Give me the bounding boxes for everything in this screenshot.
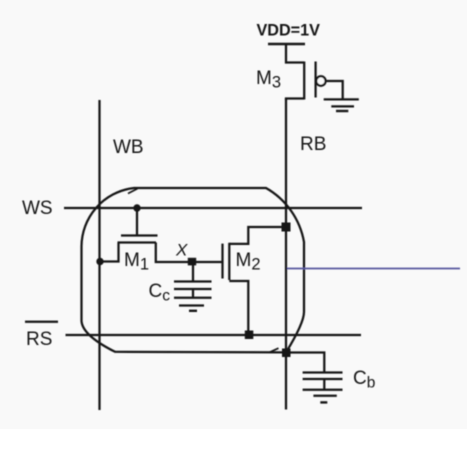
VDD rail <box>268 43 305 46</box>
svg-text:RB: RB <box>300 134 326 155</box>
wire X to Cc <box>192 262 194 282</box>
node RS-M2 source junction <box>245 331 254 340</box>
node RB-M2 drain junction <box>282 223 291 232</box>
transistor M3 gate bar <box>314 62 316 98</box>
svg-text:RS: RS <box>26 329 52 350</box>
wire M1 source to WB <box>100 243 119 262</box>
cell boundary stroke overlap tick <box>270 348 279 352</box>
svg-text:WS: WS <box>22 198 53 219</box>
capacitor Cc top plate <box>174 280 212 282</box>
node WS-M1 gate junction <box>133 204 140 211</box>
capacitor Cb bottom plate <box>303 378 343 380</box>
wire RB vertical <box>285 99 287 410</box>
wire M2 source to RS <box>229 281 248 335</box>
wire WB vertical <box>98 100 100 410</box>
transistor M3 PMOS bubble <box>316 76 325 85</box>
transistor M1 gate bar <box>121 234 158 236</box>
cell boundary stroke overlap tick (top-left) <box>128 189 138 194</box>
node X square <box>188 258 196 266</box>
wire M1 drain to node X and M2 gate <box>156 243 222 263</box>
wire read port (blue) <box>287 268 460 270</box>
wire WS to M1 gate <box>136 208 138 236</box>
transistor M3 channel <box>303 62 305 100</box>
node WB-M1 junction <box>96 258 103 265</box>
wire Cc to ground <box>192 289 194 298</box>
wire M3 drain to RB <box>286 99 304 101</box>
capacitor Cc bottom plate <box>174 288 212 290</box>
ground at M3 gate <box>324 98 359 100</box>
wire WS horizontal <box>64 207 362 209</box>
wire M3 source to VDD <box>286 44 304 63</box>
capacitor Cb top plate <box>303 371 343 373</box>
wire M3 gate to ground <box>325 81 342 99</box>
ground at Cc <box>174 297 212 299</box>
transistor M2 gate bar <box>221 244 223 279</box>
RS overline <box>25 321 58 323</box>
wire RS horizontal <box>66 334 362 336</box>
svg-text:WB: WB <box>113 137 144 158</box>
transistor M1 channel <box>118 241 157 243</box>
cell boundary rounded rectangle <box>81 188 304 352</box>
wire RB to Cb <box>286 353 324 373</box>
svg-text:VDD=1V: VDD=1V <box>257 22 321 40</box>
wire M2 drain to RB <box>229 227 286 244</box>
wire Cb to ground <box>323 379 325 390</box>
svg-text:X: X <box>175 241 188 260</box>
node RB-Cb junction <box>282 349 291 358</box>
ground at Cb <box>303 389 343 391</box>
transistor M2 channel <box>228 243 230 280</box>
